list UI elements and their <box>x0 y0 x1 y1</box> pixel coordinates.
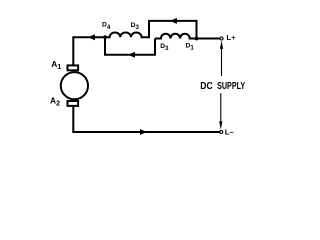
svg-text:D4: D4 <box>102 22 111 31</box>
motor brush A2 (bottom rectangle) <box>68 101 79 106</box>
wire: vertical from upper coil D3 end up to top wire <box>148 21 150 38</box>
wire: bottom return from armature to L- <box>72 131 219 133</box>
svg-text:A2: A2 <box>50 96 60 108</box>
svg-text:A1: A1 <box>51 59 61 71</box>
svg-text:L+: L+ <box>226 33 236 42</box>
svg-text:D3: D3 <box>131 22 140 31</box>
arrow: supply polarity pointer down toward L- <box>220 93 222 124</box>
arrow: current direction toward armature (pointing left) <box>88 34 95 40</box>
wire: vertical jog from junction down to lower link wire <box>104 37 106 55</box>
wire: left vertical from top node down to armature A1 brush <box>72 37 74 64</box>
svg-text:D3: D3 <box>160 43 169 52</box>
wire: top horizontal from right vertical to upper coil <box>148 20 197 22</box>
wire: vertical from lower coil D3 end down to link wire <box>154 39 156 56</box>
svg-text:D1: D1 <box>186 42 195 51</box>
inductor: field winding D3-D1 (lower coil) <box>155 34 220 39</box>
svg-text:SUPPLY: SUPPLY <box>217 81 245 92</box>
svg-text:DC: DC <box>200 81 212 92</box>
inductor: field winding D4-D3 (upper coil) <box>105 32 149 37</box>
arrow: supply polarity pointer up toward L+ <box>221 46 223 76</box>
node: junction dot joining both field branches <box>103 35 107 39</box>
terminal L+ : open circle <box>220 37 223 40</box>
wire: right vertical from top wire down to L+ node <box>196 20 198 39</box>
arrow: current direction in top wire (pointing left) <box>170 18 177 24</box>
node: junction dot at L+ branch point <box>195 37 199 41</box>
wire: left vertical from armature A2 brush down to bottom wire <box>72 107 74 132</box>
wire: horizontal armature feed, junction node to left corner <box>72 36 105 38</box>
arrow: current direction in bottom wire (pointing right) <box>140 129 147 135</box>
terminal L- : open circle <box>220 131 223 134</box>
wire: lower link from D3 end of lower coil to junction <box>104 54 155 56</box>
svg-text:L–: L– <box>225 127 235 136</box>
motor armature M : circle body <box>61 72 88 99</box>
motor brush A1 (top rectangle) <box>68 65 79 70</box>
arrow: current direction in lower link (pointing left) <box>128 52 135 58</box>
